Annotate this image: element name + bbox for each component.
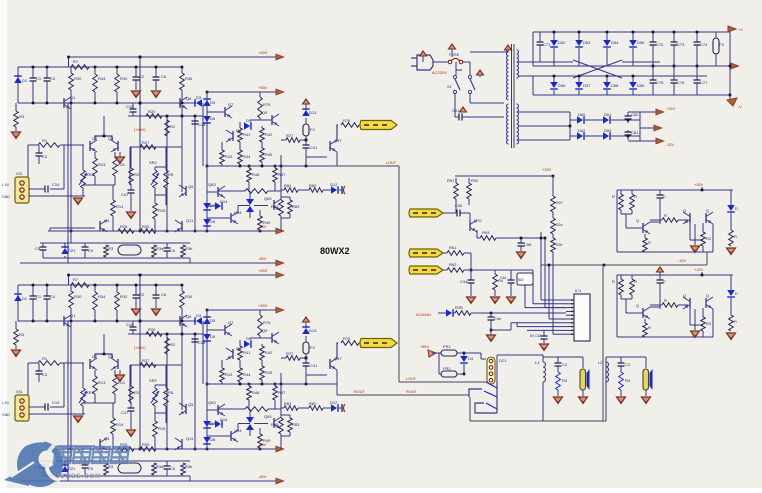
svg-text:FR1: FR1	[443, 344, 451, 349]
svg-text:D57: D57	[583, 83, 591, 88]
resistor R76a	[341, 123, 359, 128]
svg-text:R3b: R3b	[185, 464, 193, 469]
svg-text:C74: C74	[700, 42, 708, 47]
svg-text:+15V: +15V	[694, 268, 703, 272]
svg-text:R13: R13	[98, 380, 106, 385]
block M3 transistor Qb	[689, 298, 691, 308]
svg-text:D: D	[735, 206, 738, 211]
block M3 ground right	[727, 333, 736, 340]
block M2 right vertical	[712, 224, 714, 252]
resistor R45a	[260, 148, 265, 162]
svg-text:R2b: R2b	[556, 243, 562, 247]
diode D63	[585, 135, 603, 137]
mid output arrow	[640, 127, 654, 129]
svg-text:C77: C77	[700, 80, 708, 85]
resistor R77a	[281, 139, 286, 141]
svg-text:+45V: +45V	[258, 268, 268, 273]
svg-text:Q9: Q9	[262, 110, 268, 115]
resistor R7ab inline	[71, 283, 89, 288]
svg-text:C9: C9	[88, 248, 94, 253]
svg-text:Q1: Q1	[70, 95, 76, 100]
svg-text:R82: R82	[309, 401, 317, 406]
svg-text:D6: D6	[210, 116, 216, 121]
wire b connector ground lead	[29, 413, 85, 415]
resistor R3ca	[129, 168, 134, 184]
svg-text:R7: R7	[73, 277, 79, 282]
svg-text:(+45V): (+45V)	[134, 128, 146, 132]
resistor RL1	[443, 252, 447, 254]
svg-text:R5: R5	[168, 172, 174, 177]
wire a input drop	[27, 145, 29, 183]
diode D8b	[203, 437, 211, 443]
svg-text:R45: R45	[265, 152, 273, 157]
wire C61 to transformer	[468, 116, 504, 118]
svg-text:F2: F2	[310, 345, 315, 350]
ground under C47b	[127, 430, 136, 437]
svg-text:C8: C8	[35, 246, 41, 251]
block M2 diode Da	[730, 190, 732, 205]
svg-text:D3: D3	[196, 313, 202, 318]
svg-text:D14: D14	[220, 417, 228, 422]
svg-text:C6: C6	[170, 466, 176, 471]
svg-text:R4: R4	[625, 378, 631, 383]
wires to switch	[463, 61, 470, 63]
svg-text:Q65: Q65	[264, 414, 272, 419]
svg-text:C9: C9	[88, 466, 94, 471]
transistor Q67a	[329, 141, 331, 151]
svg-text:GND: GND	[2, 195, 10, 199]
svg-text:LOUT: LOUT	[406, 377, 417, 381]
svg-text:R75: R75	[263, 102, 271, 107]
lower bridge right vertical	[639, 112, 641, 141]
LOUT wire	[399, 381, 486, 383]
diode D21a	[64, 243, 66, 248]
rectifier bottom rail	[533, 94, 730, 96]
fuse FUSE1	[448, 60, 452, 64]
svg-text:D4: D4	[468, 356, 474, 361]
svg-text:R82: R82	[309, 183, 317, 188]
svg-text:R32: R32	[120, 76, 128, 81]
resistor R8bb row	[218, 408, 245, 410]
resistor R2a	[619, 372, 624, 390]
svg-text:+45V: +45V	[258, 50, 268, 55]
bottom rail output arrow	[729, 95, 731, 100]
resistor R22a	[104, 245, 109, 257]
svg-text:Q70: Q70	[474, 218, 482, 223]
block M3 resistor Rd	[730, 298, 732, 315]
ground below C6b	[152, 309, 161, 316]
rectifier crossover X wires	[573, 60, 622, 78]
svg-text:R3: R3	[19, 114, 25, 119]
svg-text:R2: R2	[170, 124, 176, 129]
diode D6b	[203, 334, 211, 340]
block M2 resistor Rc	[662, 218, 678, 223]
svg-text:Q3: Q3	[108, 354, 114, 359]
relay capsule a	[118, 245, 141, 255]
svg-text:FUSE: FUSE	[449, 53, 460, 57]
bundle vertical 3	[548, 265, 550, 319]
dual diode D10b bowtie	[246, 417, 254, 423]
diode D55	[632, 32, 634, 40]
pin wire c ACDET	[491, 312, 566, 314]
svg-text:R: R	[734, 319, 737, 324]
svg-text:R14: R14	[116, 204, 124, 209]
wire a output node row	[207, 165, 330, 167]
lug row 2 wire to box	[470, 269, 533, 271]
block M2 transistor Qb	[689, 213, 691, 223]
transistor Q8a	[232, 131, 234, 141]
svg-text:D1: D1	[22, 296, 28, 301]
svg-text:R34: R34	[98, 294, 106, 299]
block M2 resistor R2x	[702, 223, 704, 232]
svg-text:R: R	[612, 194, 615, 199]
svg-text:D12: D12	[330, 400, 338, 405]
vertical a x=130	[129, 147, 131, 185]
transformer T1 secondary lower	[517, 104, 519, 144]
svg-text:R27: R27	[142, 358, 150, 363]
capacitor C6ba	[166, 243, 168, 248]
transistor Q11ba	[181, 221, 183, 231]
svg-text:D54: D54	[611, 40, 619, 45]
svg-text:R20: R20	[148, 327, 156, 332]
svg-text:D3: D3	[196, 95, 202, 100]
block M2 pair verticals	[689, 223, 691, 240]
supply decoupling arrow b	[303, 317, 310, 322]
svg-text:R42: R42	[265, 132, 273, 137]
left vertical of bridge	[532, 32, 534, 66]
svg-text:-45V: -45V	[258, 256, 267, 261]
relay contact blade 2	[484, 391, 497, 397]
block M3 resistor Ra	[620, 275, 622, 279]
resistor R50 with ground	[494, 270, 496, 274]
resistor R1a	[28, 144, 38, 146]
resistor R15b	[153, 421, 158, 437]
transistor Q4a	[99, 221, 101, 231]
transistor Q65b	[273, 418, 275, 428]
supply decoupling arrow a	[303, 99, 310, 104]
top rectifier rail	[533, 31, 716, 33]
resistor R36a	[181, 67, 183, 73]
svg-text:D: D	[735, 291, 738, 296]
resistor R30a	[70, 67, 72, 73]
capacitor C76 row2	[673, 66, 675, 80]
capacitor C56 with ground	[520, 238, 522, 243]
svg-text:R3a: R3a	[156, 246, 164, 251]
svg-text:+45V: +45V	[258, 85, 268, 90]
capacitor C6bb	[166, 461, 168, 466]
svg-text:R30: R30	[74, 294, 82, 299]
svg-text:S1: S1	[447, 85, 452, 89]
capacitor C6b to ground	[155, 285, 157, 295]
capacitor C70b output	[343, 404, 345, 412]
block M2 resistor Rd	[730, 213, 732, 230]
wire b output node row	[207, 383, 330, 385]
resistor R91	[455, 178, 457, 183]
svg-text:R29: R29	[142, 224, 150, 229]
resistor R52	[453, 312, 455, 314]
svg-text:D8: D8	[210, 437, 216, 442]
svg-text:Q4: Q4	[104, 436, 110, 441]
junction dots b line3	[32, 320, 35, 323]
connector XS1a	[15, 177, 29, 203]
svg-text:C47: C47	[121, 410, 129, 415]
resistor R49b	[258, 434, 263, 448]
capacitor C73	[673, 32, 675, 42]
speaker net 1 top wire	[543, 356, 583, 358]
svg-text:R29: R29	[142, 442, 150, 447]
svg-text:XR1: XR1	[86, 172, 95, 177]
wire b bottom row line	[43, 475, 190, 477]
transistor Q8b	[232, 349, 234, 359]
capacitor C2a	[620, 357, 622, 363]
wire a bottom row line	[43, 257, 190, 259]
transistor Q64a	[230, 213, 232, 223]
-45V bottom rail a	[20, 262, 276, 264]
vertical a x=203	[202, 103, 204, 166]
diode D4 relay	[463, 353, 465, 356]
svg-text:R41: R41	[243, 132, 251, 137]
capacitor C75 row2	[652, 66, 654, 80]
svg-text:Q3: Q3	[108, 136, 114, 141]
resistor R8ba row	[218, 190, 245, 192]
svg-text:GND: GND	[2, 413, 10, 417]
svg-text:80WX2: 80WX2	[320, 246, 350, 256]
capacitor C3a	[38, 145, 40, 153]
vertical a x=195	[194, 116, 196, 231]
resistor R36b	[181, 285, 183, 291]
svg-text:R36: R36	[185, 294, 193, 299]
rectifier mid rail to +	[533, 65, 731, 67]
svg-text:+15V: +15V	[542, 168, 551, 172]
capacitor C9a	[84, 243, 86, 247]
trimmer XR2b and resistor R5b pair	[155, 384, 166, 386]
wire a Q67 down	[336, 152, 338, 166]
wire b row y=147	[130, 364, 182, 366]
wire b to Q67	[306, 374, 327, 376]
block M3 resistor R2x	[702, 308, 704, 317]
resistor R41b	[238, 346, 243, 360]
svg-text:C72: C72	[656, 42, 664, 47]
pin wire d	[511, 322, 566, 324]
resistor R9a	[181, 245, 186, 257]
capacitor C10a	[29, 188, 45, 190]
svg-text:R: R	[634, 194, 637, 199]
svg-text:C6: C6	[161, 74, 167, 79]
transformer T1 core	[511, 44, 513, 148]
svg-text:D21: D21	[68, 248, 76, 253]
svg-text:R2: R2	[170, 342, 176, 347]
capacitor C71 bridge	[539, 32, 541, 42]
resistor R20a	[146, 114, 162, 119]
wire b Q67 down	[336, 370, 338, 384]
ground of input a	[74, 198, 83, 205]
mid separator line	[541, 264, 707, 266]
capacitor C10b	[29, 406, 45, 408]
svg-text:R: R	[648, 240, 651, 245]
resistor R15a	[153, 203, 158, 219]
resistor R11b	[114, 370, 116, 376]
svg-text:R3b: R3b	[185, 246, 193, 251]
vertical bus b x=68/71	[67, 321, 69, 481]
wire b rail1 corner drop	[68, 275, 70, 285]
svg-text:C4e: C4e	[494, 316, 502, 321]
resistor FR1 capsule	[432, 352, 441, 354]
svg-text:Q6: Q6	[186, 96, 192, 101]
resistor R44a	[238, 150, 243, 164]
svg-text:R44: R44	[243, 154, 251, 159]
transistor Q7b	[224, 325, 226, 335]
block M3 bottom rail	[617, 336, 710, 338]
svg-text:D13: D13	[309, 110, 317, 115]
svg-text:R93: R93	[482, 230, 490, 235]
wire a line3	[18, 102, 196, 104]
+15V output arrow	[640, 111, 656, 113]
wire a connector ground lead	[29, 195, 85, 197]
channel a upper rail 2	[18, 66, 182, 68]
trimmer XR1a	[82, 145, 84, 170]
svg-text:R75: R75	[263, 320, 271, 325]
bottom loop wire	[469, 397, 471, 421]
svg-text:R5: R5	[168, 390, 174, 395]
svg-text:R4: R4	[562, 378, 568, 383]
capacitor C9b	[84, 461, 86, 465]
svg-text:LOUT: LOUT	[386, 161, 397, 165]
capacitor C1b	[32, 285, 34, 296]
transformer T1 secondary upper	[517, 50, 519, 78]
speaker net 2 top wire	[606, 356, 646, 358]
fuse F2a	[305, 118, 307, 124]
svg-text:R: R	[648, 325, 651, 330]
pin wire b	[524, 285, 526, 308]
transistor Q4b	[99, 439, 101, 449]
svg-text:Q: Q	[683, 293, 686, 298]
wire relay coil feed	[464, 352, 481, 354]
transistor Q9b	[271, 333, 273, 343]
block M3 capacitor Ca	[659, 275, 661, 280]
svg-text:D59: D59	[637, 83, 645, 88]
capacitor C41a	[305, 140, 307, 145]
svg-text:Q5: Q5	[188, 402, 194, 407]
resistor R24a	[152, 245, 157, 257]
capacitor C16b	[132, 321, 134, 327]
bundle vertical 2	[544, 238, 546, 308]
svg-text:D53: D53	[583, 40, 591, 45]
ground under speaker 1	[582, 390, 584, 396]
wire b input drop	[27, 363, 29, 401]
svg-text:D8: D8	[210, 219, 216, 224]
svg-text:R49: R49	[263, 438, 271, 443]
block M2 ground right	[727, 248, 736, 255]
diode D3b at end of line3	[196, 317, 202, 325]
svg-text:C16: C16	[126, 322, 134, 327]
relay feed arrow	[428, 350, 436, 357]
svg-text:C3: C3	[42, 154, 48, 159]
transistor Q63a	[217, 187, 219, 197]
svg-text:C6: C6	[170, 248, 176, 253]
svg-text:R30: R30	[74, 76, 82, 81]
transistor Q5a	[185, 186, 187, 196]
svg-text:R27: R27	[142, 140, 150, 145]
-15V output arrow	[640, 140, 656, 142]
resistor R34b	[94, 285, 96, 292]
svg-text:XS1: XS1	[16, 390, 23, 394]
svg-text:R36: R36	[185, 76, 193, 81]
svg-text:F2: F2	[310, 127, 315, 132]
block M3 right vertical	[712, 309, 714, 337]
vertical a x=182	[181, 105, 183, 192]
ground below C2a	[132, 91, 141, 98]
svg-text:R49: R49	[263, 220, 271, 225]
svg-text:ACMAIN: ACMAIN	[416, 313, 431, 317]
svg-text:D62: D62	[578, 128, 586, 133]
mute block top rail	[455, 175, 553, 177]
lug row junction wires	[470, 253, 472, 270]
ground under RC 1	[554, 397, 563, 404]
block M2 resistor loop	[621, 213, 632, 215]
bundle vertical 4 with resistors R20b R2a R2b	[552, 178, 554, 196]
ground under C42	[540, 344, 549, 351]
resistor R32a	[116, 67, 118, 74]
transistor Q6a	[179, 98, 181, 108]
svg-text:L2: L2	[598, 360, 603, 365]
svg-text:D61: D61	[604, 112, 612, 117]
resistor R14b	[112, 403, 114, 418]
watermark glyph 3	[92, 447, 110, 463]
diode D3a at end of line3	[196, 99, 202, 107]
svg-text:R91: R91	[447, 178, 455, 183]
svg-text:-15V: -15V	[678, 259, 686, 263]
resistor FR2 capsule	[441, 371, 457, 377]
resistor R41a	[238, 128, 243, 142]
svg-text:R80: R80	[271, 204, 279, 209]
svg-text:D52: D52	[558, 40, 566, 45]
resistor R3cb	[129, 386, 134, 402]
resistor R13a	[94, 152, 96, 158]
block M3 diode Da	[730, 275, 732, 290]
diode D9b horizontal	[244, 340, 250, 348]
svg-text:C1: C1	[36, 294, 42, 299]
svg-text:Q: Q	[683, 208, 686, 213]
svg-text:R14: R14	[116, 422, 124, 427]
svg-text:FR2: FR2	[443, 366, 451, 371]
test point arrow 1	[420, 51, 427, 56]
capacitor C77 row2	[696, 66, 698, 80]
ground under RC 2	[617, 397, 626, 404]
svg-text:JDBBS.COM: JDBBS.COM	[56, 473, 101, 480]
svg-text:Q1: Q1	[70, 313, 76, 318]
block M3 resistor Re	[644, 319, 646, 323]
capacitor C80	[627, 112, 629, 116]
wire a Q67 emitter	[337, 125, 338, 140]
transistor Q67b	[329, 359, 331, 369]
diode D56 row2	[553, 76, 555, 82]
svg-text:D58: D58	[611, 83, 619, 88]
test point arrow 4	[460, 107, 467, 112]
ground under C47a	[127, 212, 136, 219]
capacitor C4a	[46, 67, 48, 78]
svg-text:R83: R83	[292, 204, 300, 209]
relay contact loop 1	[469, 389, 482, 397]
ground below R31a	[12, 132, 21, 139]
svg-text:D21: D21	[68, 466, 76, 471]
relay contact loop 2	[475, 403, 497, 413]
diode D59 row2	[632, 76, 634, 82]
block M3 pair verticals	[689, 308, 691, 325]
trimmer XR1b	[82, 363, 84, 388]
svg-text:C6: C6	[161, 292, 167, 297]
transistor Q63b	[217, 405, 219, 415]
relay contact blade 3	[486, 403, 497, 409]
